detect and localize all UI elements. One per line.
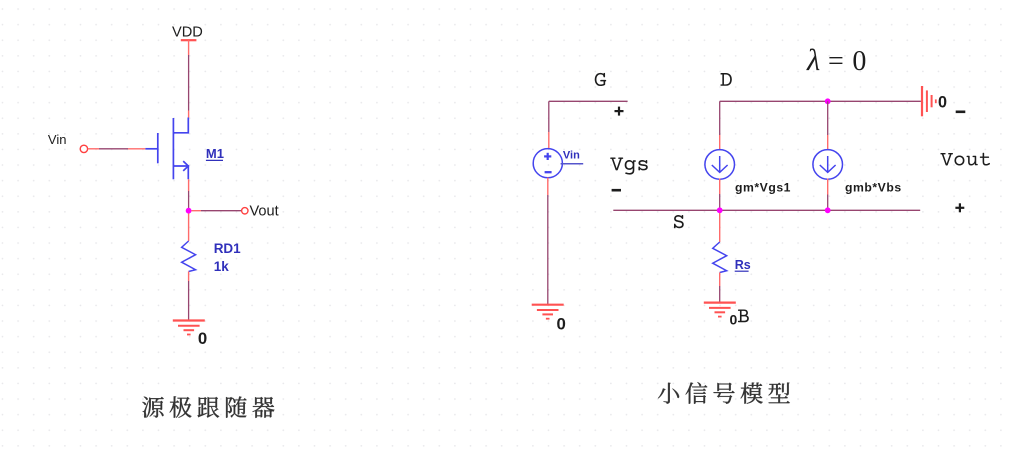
svg-text:Vin: Vin [563,150,580,162]
wire S junction to Rs [719,213,721,242]
label B [738,309,749,322]
label Rs [735,258,751,272]
resistor Rs [713,242,727,273]
transistor M1 (NMOS) [145,118,188,180]
wire RD1 to ground [188,272,190,321]
junction S2 node [825,207,831,213]
svg-text:RD1: RD1 [214,241,241,256]
junction node Vout [186,208,192,214]
svg-text:0: 0 [198,329,207,348]
label − (Vout minus) [956,111,966,114]
svg-text:M1: M1 [206,146,224,161]
svg-text:VDD: VDD [172,25,203,41]
label G [595,73,606,86]
wire junction to Vout terminal [191,210,241,212]
svg-text:0: 0 [730,312,738,328]
wire S rail [613,209,920,211]
svg-text:gmb*Vbs: gmb*Vbs [845,181,902,195]
label M1 [206,146,224,161]
ground node 0/B [704,303,736,317]
label Vout [940,153,990,166]
wire Rs to ground [719,273,721,303]
label D [720,73,731,86]
wire junction to RD1 [188,214,190,242]
label S [674,215,684,228]
terminal Vout [242,208,248,214]
resistor RD1 [182,241,196,272]
svg-text:gm*Vgs1: gm*Vgs1 [735,181,791,195]
wire G2 to S rail [827,179,829,211]
label + (Vout plus) [955,203,964,212]
svg-text:0: 0 [557,315,566,334]
current source G2 [813,150,843,180]
svg-text:Vin: Vin [48,132,67,147]
junction S node [717,207,723,213]
wire VDD to drain [188,40,190,117]
ground node 0 [173,321,205,335]
junction D node [825,98,831,104]
power symbol VDD [181,39,197,41]
wire source to ground [547,178,549,305]
voltage source Vin [533,149,562,178]
label Vgs [610,157,648,174]
label + (Vgs plus) [615,107,624,116]
label − (Vgs minus) [612,189,621,192]
terminal Vin [80,145,87,152]
wire G1 to S rail [719,179,721,211]
wire top to G1 [719,101,721,150]
label RD1 value 1k [214,241,241,274]
label Vin (source) [561,150,584,164]
wire D rail to ground [720,100,921,102]
svg-text:λ = 0: λ = 0 [806,43,867,77]
ground node 0 (left) [532,305,564,319]
svg-text:1k: 1k [214,259,230,274]
caption 小信号模型 [658,382,790,404]
ground (AC ground, rotated) [922,86,936,116]
wire source to junction [188,179,190,208]
svg-text:0: 0 [938,93,947,111]
caption 源极跟随器 [142,396,274,418]
wire Vin to gate [88,148,146,150]
svg-text:Vout: Vout [250,203,279,219]
svg-text:Rs: Rs [735,258,751,272]
wire G net (gate, open end) [549,101,628,148]
current source G1 [705,150,735,180]
wire top to G2 [827,101,829,150]
